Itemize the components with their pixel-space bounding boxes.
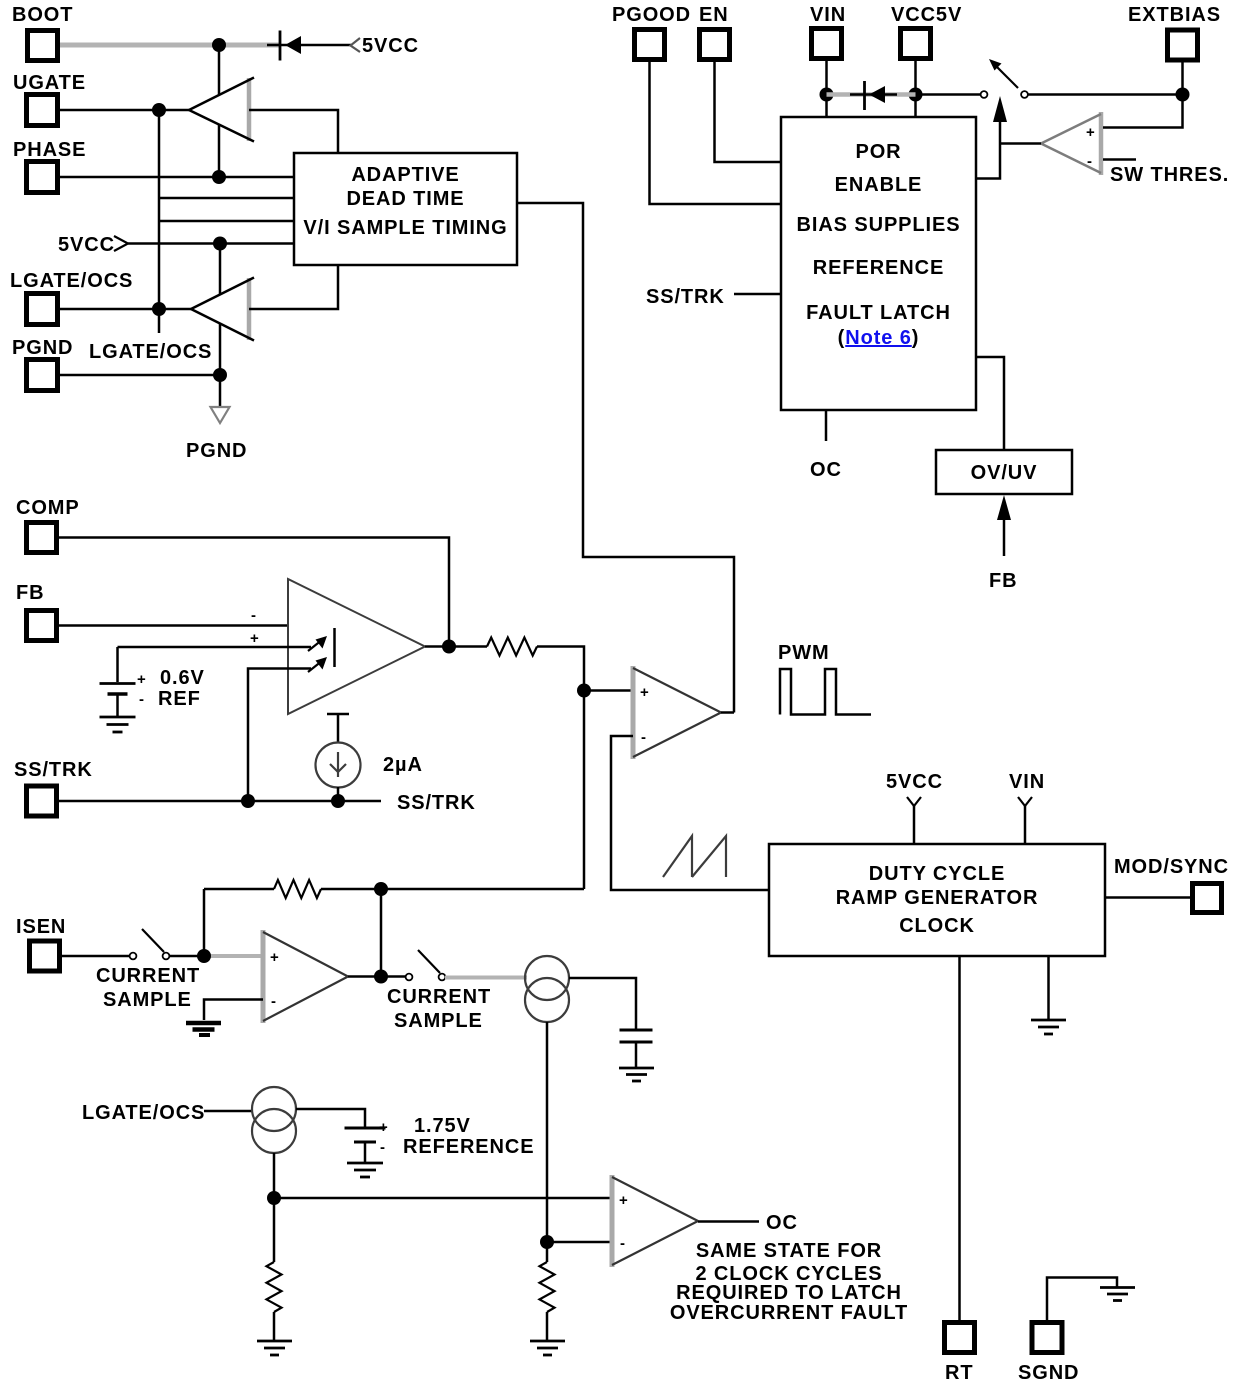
wire PGOOD to POR box xyxy=(650,62,782,204)
node PHASE junction xyxy=(212,170,226,184)
pin VCC5V xyxy=(891,4,962,59)
wire FB arrow into OV/UV xyxy=(989,495,1017,592)
svg-text:PHASE: PHASE xyxy=(13,139,86,161)
wire DUTY box to ground xyxy=(1047,956,1050,1019)
wire junction up to R2 xyxy=(203,889,206,956)
svg-text:REFERENCE: REFERENCE xyxy=(403,1136,534,1158)
pin RT xyxy=(945,1323,975,1385)
resistor R1 xyxy=(487,638,537,656)
wire UGATE sense vertical xyxy=(158,110,161,333)
node A2 output junction xyxy=(374,970,388,984)
svg-text:FB: FB xyxy=(989,570,1017,592)
node EXTBIAS junction xyxy=(1176,88,1190,102)
pin ISEN xyxy=(16,916,66,971)
svg-text:-: - xyxy=(139,691,144,708)
pin SGND xyxy=(1018,1323,1079,1385)
wire 5VCC junction to U2 top xyxy=(219,244,222,296)
wire EXTBIAS pin down xyxy=(1181,63,1184,95)
svg-text:+: + xyxy=(379,1119,388,1136)
node BOOT junction xyxy=(212,38,226,52)
ground B2 xyxy=(347,1163,383,1177)
wire to A3 minus xyxy=(547,1241,612,1244)
svg-text:PWM: PWM xyxy=(778,642,830,664)
wire EN to POR box xyxy=(715,62,782,162)
battery B2 1.75V REFERENCE xyxy=(345,1115,535,1162)
svg-text:+: + xyxy=(270,949,279,966)
node LGATE junction xyxy=(152,302,166,316)
wire gray S3 to CS2 xyxy=(445,976,527,980)
pin SS/TRK xyxy=(14,759,93,816)
svg-text:-: - xyxy=(641,729,646,746)
wire CS2 to capacitor C1 xyxy=(569,978,636,1029)
current source CS3 OCS threshold xyxy=(252,1087,296,1153)
svg-text:RAMP GENERATOR: RAMP GENERATOR xyxy=(836,887,1039,909)
svg-text:-: - xyxy=(620,1235,625,1252)
svg-text:-: - xyxy=(1087,153,1092,170)
svg-text:+: + xyxy=(137,671,146,688)
wire to R2 xyxy=(204,888,274,891)
svg-text:CLOCK: CLOCK xyxy=(899,915,975,937)
wire PHASE to box xyxy=(60,176,294,179)
wire 5VCC to box xyxy=(128,242,294,245)
wire 0.6V REF to A1 plus xyxy=(118,646,312,649)
comparator A4 PWM xyxy=(633,666,721,759)
svg-text:CURRENT: CURRENT xyxy=(96,965,200,987)
svg-text:VCC5V: VCC5V xyxy=(891,4,962,26)
wire A2 output xyxy=(348,975,406,978)
wire SS/TRK to A1 plus xyxy=(248,669,311,802)
net label VIN into DUTY box xyxy=(1009,771,1045,844)
PWM waveform xyxy=(780,669,871,715)
node VCC5V junction xyxy=(909,88,923,102)
svg-text:EXTBIAS: EXTBIAS xyxy=(1128,4,1221,26)
comparator A3 overcurrent xyxy=(612,1175,698,1267)
net label 5VCC into DUTY box xyxy=(886,771,943,844)
svg-text:+: + xyxy=(250,630,259,647)
svg-text:FB: FB xyxy=(16,582,44,604)
block ADAPTIVE DEAD TIME V/I SAMPLE TIMING xyxy=(294,153,517,265)
svg-text:5VCC: 5VCC xyxy=(58,234,115,256)
wire A3 output OC xyxy=(698,1212,798,1234)
svg-text:LGATE/OCS: LGATE/OCS xyxy=(89,341,212,363)
svg-text:ADAPTIVE: ADAPTIVE xyxy=(351,164,459,186)
svg-text:DUTY CYCLE: DUTY CYCLE xyxy=(869,863,1005,885)
wire U1 bottom to PHASE junction xyxy=(218,125,221,177)
net label 5VCC (boot diode) xyxy=(351,35,419,57)
ground R4 xyxy=(530,1341,565,1355)
wire SS/TRK horizontal xyxy=(59,792,476,814)
node PGND junction xyxy=(213,368,227,382)
sawtooth ramp symbol xyxy=(663,836,726,877)
switch S3 current sample xyxy=(387,950,491,1032)
switch S1 EXTBIAS select xyxy=(981,59,1028,98)
svg-text:SAMPLE: SAMPLE xyxy=(394,1010,483,1032)
svg-text:PGND: PGND xyxy=(186,440,247,462)
ground A2 minus xyxy=(186,1023,221,1035)
svg-text:VIN: VIN xyxy=(810,4,846,26)
wire A2 output junction up xyxy=(380,889,383,977)
svg-text:REQUIRED TO LATCH: REQUIRED TO LATCH xyxy=(676,1282,902,1304)
node SS/TRK junction 1 xyxy=(241,794,255,808)
svg-text:SS/TRK: SS/TRK xyxy=(646,286,725,308)
pin EN xyxy=(699,4,730,60)
wire S1 to EXTBIAS junction xyxy=(1028,93,1183,96)
wire UGATE sense to box xyxy=(159,197,294,200)
wire SGND to ground xyxy=(1047,1278,1117,1321)
current source CS1 2uA xyxy=(316,714,423,801)
pin BOOT xyxy=(12,4,73,61)
diode D1 bootstrap xyxy=(267,31,351,61)
wire BOOT junction to U1 top xyxy=(218,45,221,96)
ground C1 xyxy=(619,1068,654,1081)
node VIN junction xyxy=(820,88,834,102)
ground R3 xyxy=(257,1341,292,1355)
node ISEN junction xyxy=(197,949,211,963)
wire R1 to PWM node xyxy=(537,647,584,890)
wire POR to OV/UV xyxy=(976,357,1004,450)
clamp arrows inside A1 xyxy=(308,628,335,672)
capacitor C1 xyxy=(620,1030,653,1067)
buffer U1 UGATE driver xyxy=(189,78,254,142)
wire BOOT to diode D1 (gray) xyxy=(60,43,279,48)
svg-text:0.6V: 0.6V xyxy=(160,667,205,689)
resistor R4 xyxy=(540,1262,555,1312)
svg-text:ENABLE: ENABLE xyxy=(835,174,923,196)
svg-text:MOD/SYNC: MOD/SYNC xyxy=(1114,856,1229,878)
svg-text:+: + xyxy=(619,1192,628,1209)
svg-text:-: - xyxy=(271,993,276,1010)
pin MOD/SYNC xyxy=(1114,856,1229,913)
block DUTY CYCLE RAMP GENERATOR CLOCK xyxy=(769,844,1105,956)
net label SS/TRK into POR xyxy=(646,286,781,308)
wire VCC5V to POR box xyxy=(914,61,917,117)
wire U3 plus input from EXTBIAS xyxy=(1103,95,1183,128)
wire MOD/SYNC xyxy=(1105,896,1190,899)
wire COMP to A1 output node xyxy=(59,538,449,647)
svg-text:1.75V: 1.75V xyxy=(414,1115,471,1137)
wire ISEN to switch S2 xyxy=(62,955,130,958)
resistor R3 xyxy=(267,1262,282,1312)
current source CS2 sampled current xyxy=(525,956,569,1022)
pin UGATE xyxy=(13,72,86,126)
pin VIN xyxy=(810,4,846,59)
svg-text:+: + xyxy=(1086,124,1095,141)
wire UGATE to driver U1 xyxy=(60,109,190,112)
node R2 junction xyxy=(374,882,388,896)
wire CS2 bottom to OC minus node xyxy=(546,1022,549,1262)
ground DUTY box xyxy=(1031,1020,1066,1034)
svg-text:PGND: PGND xyxy=(12,337,73,359)
svg-text:V/I SAMPLE TIMING: V/I SAMPLE TIMING xyxy=(303,217,507,239)
wire LGATE sense to box xyxy=(159,220,294,223)
wire VCC5V junction to switch S1 xyxy=(916,93,981,96)
svg-text:+: + xyxy=(640,684,649,701)
wire A4 minus to ramp xyxy=(611,736,769,890)
svg-text:LGATE/OCS: LGATE/OCS xyxy=(82,1102,205,1124)
svg-text:-: - xyxy=(380,1139,385,1156)
svg-text:VIN: VIN xyxy=(1009,771,1045,793)
ground for B1 xyxy=(100,717,136,732)
node COMP junction xyxy=(442,640,456,654)
wire PGND to junction xyxy=(60,374,220,377)
wire FB to A1 minus xyxy=(59,624,289,627)
svg-text:REF: REF xyxy=(158,688,201,710)
wire PWM signal from comparator to ADAPTIVE box xyxy=(517,203,734,713)
wire U1 output to box top xyxy=(249,110,338,153)
svg-text:FAULT LATCH: FAULT LATCH xyxy=(806,302,951,324)
wire to A4 plus xyxy=(584,689,633,692)
pin PHASE xyxy=(13,139,86,193)
pin FB xyxy=(16,582,57,641)
wire U2 output to box bottom xyxy=(249,265,338,309)
wire U2 bottom to PGND junction xyxy=(219,324,222,406)
wire R4 to ground xyxy=(546,1312,549,1340)
wire U3 output to switch control xyxy=(1000,142,1041,145)
svg-text:SAMPLE: SAMPLE xyxy=(103,989,192,1011)
battery B1 0.6V REF xyxy=(100,647,205,716)
wire to A3 plus xyxy=(274,1197,612,1200)
wire A4 output xyxy=(721,711,734,714)
svg-text:SGND: SGND xyxy=(1018,1362,1079,1384)
svg-text:SS/TRK: SS/TRK xyxy=(14,759,93,781)
svg-text:BIAS SUPPLIES: BIAS SUPPLIES xyxy=(797,214,961,236)
wire U3 minus input SW THRES xyxy=(1103,160,1229,187)
pin COMP xyxy=(16,497,80,553)
wire CS3 to battery B2 xyxy=(296,1109,365,1127)
pin PGOOD xyxy=(612,4,691,60)
node PWM plus junction xyxy=(577,684,591,698)
switch S2 current sample xyxy=(96,929,200,1011)
svg-text:REFERENCE: REFERENCE xyxy=(813,257,944,279)
wire A1 output to resistor xyxy=(425,645,487,648)
switch control arrow from POR xyxy=(976,96,1007,179)
block OV/UV xyxy=(936,450,1072,494)
svg-text:-: - xyxy=(251,607,256,624)
wire S2 to A2 plus xyxy=(169,955,206,958)
wire LGATE to driver U2 xyxy=(60,308,192,311)
block POR ENABLE BIAS SUPPLIES REFERENCE FAULT LATCH xyxy=(781,117,976,410)
buffer U2 LGATE driver xyxy=(191,278,254,341)
svg-text:ISEN: ISEN xyxy=(16,916,66,938)
svg-text:UGATE: UGATE xyxy=(13,72,86,94)
svg-text:5VCC: 5VCC xyxy=(362,35,419,57)
resistor R2 xyxy=(274,880,321,898)
svg-text:POR: POR xyxy=(855,141,901,163)
node SS/TRK junction 2 xyxy=(331,794,345,808)
svg-text:OC: OC xyxy=(766,1212,798,1234)
wire A2 minus to ground xyxy=(204,1000,263,1021)
wire R2 to PWM node xyxy=(321,888,584,891)
net label 5VCC (driver supply) xyxy=(58,234,128,256)
svg-text:OVERCURRENT FAULT: OVERCURRENT FAULT xyxy=(670,1302,908,1324)
wire OC output stub xyxy=(810,410,842,481)
wire RT xyxy=(958,956,961,1320)
svg-text:OC: OC xyxy=(810,459,842,481)
note text overcurrent latch xyxy=(670,1240,908,1324)
svg-text:BOOT: BOOT xyxy=(12,4,73,26)
svg-text:OV/UV: OV/UV xyxy=(971,462,1038,484)
node OC minus junction xyxy=(540,1235,554,1249)
pin EXTBIAS xyxy=(1128,4,1221,60)
svg-text:5VCC: 5VCC xyxy=(886,771,943,793)
svg-text:SW THRES.: SW THRES. xyxy=(1110,164,1229,186)
svg-text:2µA: 2µA xyxy=(383,754,423,776)
wire gray S2 junction to A2 xyxy=(206,954,261,958)
comparator U3 EXTBIAS switchover xyxy=(1041,112,1101,175)
svg-text:CURRENT: CURRENT xyxy=(387,986,491,1008)
op-amp A1 error amplifier xyxy=(250,579,425,714)
ground SGND xyxy=(1100,1288,1135,1301)
pin LGATE/OCS xyxy=(10,270,133,325)
op-amp A2 current sense xyxy=(263,930,348,1023)
wire R3 to ground xyxy=(273,1312,276,1340)
node 5VCC junction xyxy=(213,237,227,251)
svg-text:LGATE/OCS: LGATE/OCS xyxy=(10,270,133,292)
ground PGND symbol xyxy=(186,407,247,462)
svg-text:SAME STATE FOR: SAME STATE FOR xyxy=(696,1240,882,1262)
node OC plus junction xyxy=(267,1191,281,1205)
wire CS3 bottom to OC plus node xyxy=(273,1153,276,1262)
net label LGATE/OCS xyxy=(82,1102,252,1124)
svg-text:PGOOD: PGOOD xyxy=(612,4,691,26)
node UGATE junction xyxy=(152,103,166,117)
wire VIN to POR box xyxy=(825,61,828,117)
svg-text:SS/TRK: SS/TRK xyxy=(397,792,476,814)
svg-text:COMP: COMP xyxy=(16,497,80,519)
svg-text:DEAD TIME: DEAD TIME xyxy=(346,188,464,210)
wire VIN to VCC5V (gray) xyxy=(827,92,916,97)
svg-text:(Note 6): (Note 6) xyxy=(838,327,920,349)
pin PGND xyxy=(12,337,73,391)
diode D2 VCC5V to VIN xyxy=(850,81,897,110)
svg-text:EN: EN xyxy=(699,4,729,26)
svg-text:RT: RT xyxy=(945,1362,973,1384)
